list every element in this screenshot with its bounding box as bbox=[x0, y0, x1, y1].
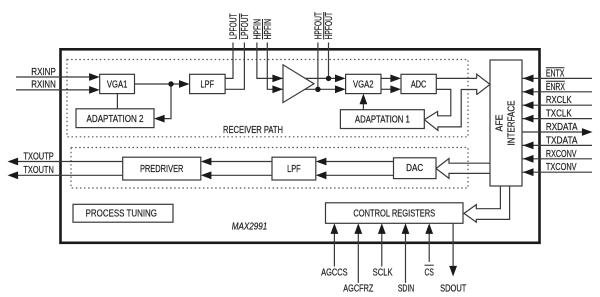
pin SCLK stub bbox=[381, 232, 383, 267]
wire LPF to PREDRIVER bbox=[211, 161, 272, 163]
arrow RXDATA out bbox=[582, 128, 593, 136]
svg-text:CONTROL REGISTERS: CONTROL REGISTERS bbox=[353, 209, 435, 220]
arrow TXCONV bbox=[523, 168, 534, 176]
svg-text:PREDRIVER: PREDRIVER bbox=[140, 164, 184, 175]
block ADAPTATION 1 bbox=[340, 110, 424, 129]
arrow VGA2 to ADC upper bbox=[390, 75, 401, 83]
block ADAPTATION 2 bbox=[76, 109, 154, 128]
svg-text:AGCCS: AGCCS bbox=[321, 267, 348, 278]
svg-text:RXINP: RXINP bbox=[31, 67, 56, 78]
block CONTROL REGISTERS bbox=[326, 203, 464, 224]
wire PREDRIVER to TXOUTP bbox=[18, 161, 123, 163]
svg-text:TXOUTN: TXOUTN bbox=[23, 165, 53, 176]
svg-text:ENTX: ENTX bbox=[546, 68, 565, 79]
svg-text:LPF: LPF bbox=[201, 80, 215, 91]
block LPF rx bbox=[190, 74, 226, 93]
svg-text:RECEIVER PATH: RECEIVER PATH bbox=[223, 125, 283, 136]
pin AGCFRZ stub bbox=[357, 232, 359, 283]
wire DAC to LPF bbox=[326, 161, 394, 163]
arrow CS bbox=[425, 223, 433, 234]
block PREDRIVER bbox=[123, 157, 201, 180]
arrow TXOUTP bbox=[8, 158, 19, 166]
arrow amp to VGA2 upper bbox=[335, 75, 346, 83]
pin LPFOUT stub bbox=[225, 43, 233, 79]
svg-text:RXDATA: RXDATA bbox=[546, 122, 578, 133]
wire RXINP bbox=[16, 76, 91, 78]
arrow HPFIN into amp bbox=[272, 75, 283, 83]
pin HPFOUT stub bbox=[317, 43, 319, 90]
arrow TXDATA bbox=[523, 142, 534, 150]
op-amp A1 triangle bbox=[283, 65, 314, 103]
arrow LPF to PREDRIVER lower bbox=[201, 171, 212, 179]
svg-text:PROCESS TUNING: PROCESS TUNING bbox=[86, 209, 157, 220]
svg-text:DAC: DAC bbox=[406, 163, 423, 174]
pin HPFOUTB stub bbox=[328, 43, 330, 79]
svg-text:VGA2: VGA2 bbox=[353, 80, 374, 91]
wire ADAPTATION 2 to VGA1 bbox=[116, 94, 118, 109]
svg-text:ADC: ADC bbox=[411, 80, 427, 91]
svg-text:MAX2991: MAX2991 bbox=[232, 222, 268, 233]
arrow RXCLK bbox=[523, 101, 534, 109]
pin TXCONV wire bbox=[522, 171, 592, 173]
svg-text:ADAPTATION 2: ADAPTATION 2 bbox=[87, 114, 144, 125]
svg-text:SCLK: SCLK bbox=[373, 267, 393, 278]
wire VGA2 to ADC bbox=[381, 77, 391, 79]
wire node to ADAPTATION 2 bbox=[163, 84, 171, 119]
svg-text:SDOUT: SDOUT bbox=[440, 283, 466, 294]
block VGA2 bbox=[346, 74, 381, 93]
svg-text:HPFOUT: HPFOUT bbox=[313, 12, 324, 40]
arrow AGCFRZ bbox=[354, 223, 362, 234]
svg-text:ENRX: ENRX bbox=[546, 82, 565, 93]
pin RXCONV wire bbox=[522, 158, 592, 160]
node HPFOUT junction bbox=[315, 87, 320, 92]
pin LPFOUTB stub bbox=[225, 43, 244, 90]
svg-text:LPFOUT: LPFOUT bbox=[228, 14, 239, 40]
block AFE INTERFACE bbox=[490, 60, 522, 186]
wire VGA1 to LPF bbox=[135, 83, 181, 85]
bus AFE to CONTROL REGISTERS bbox=[464, 186, 510, 222]
pin HPFINB stub bbox=[267, 43, 274, 90]
pin TXDATA wire bbox=[522, 144, 592, 146]
wire ADAPTATION 1 to VGA2 bbox=[362, 102, 364, 110]
svg-text:TXOUTP: TXOUTP bbox=[23, 151, 54, 162]
block LPF tx bbox=[272, 157, 316, 180]
svg-text:RXCONV: RXCONV bbox=[546, 149, 577, 160]
arrow TXOUTN bbox=[8, 171, 19, 179]
pin SDIN stub bbox=[405, 232, 407, 283]
arrow SDIN bbox=[402, 223, 410, 234]
arrow ENTX bbox=[523, 75, 534, 83]
pin ENTX wire bbox=[522, 77, 592, 79]
svg-text:RXINN: RXINN bbox=[31, 80, 56, 91]
svg-text:RXCLK: RXCLK bbox=[546, 95, 572, 106]
arrow SDOUT bbox=[449, 266, 457, 277]
arrow VGA1-LPF bbox=[179, 80, 190, 88]
bus ADC to ADAPTATION 1 bbox=[424, 89, 476, 130]
arrow amp to VGA2 lower bbox=[335, 85, 346, 93]
block PROCESS TUNING bbox=[73, 204, 173, 222]
pin CS stub bbox=[428, 232, 430, 262]
chip outline bbox=[61, 49, 540, 243]
arrow DAC to LPF lower bbox=[316, 171, 327, 179]
arrow RXINN bbox=[89, 86, 100, 94]
wire RXINN bbox=[16, 89, 91, 91]
block ADC bbox=[401, 74, 436, 93]
node HPFOUTB junction bbox=[326, 76, 331, 81]
block DAC bbox=[394, 158, 437, 179]
bus AFE to DAC bbox=[436, 159, 490, 179]
arrow ENRX bbox=[523, 88, 534, 96]
pin TXCLK wire bbox=[522, 118, 592, 120]
arrow RXCONV bbox=[523, 155, 534, 163]
svg-text:TXDATA: TXDATA bbox=[546, 135, 578, 146]
svg-text:AGCFRZ: AGCFRZ bbox=[343, 283, 373, 294]
pin ENRX wire bbox=[522, 91, 592, 93]
receiver path dashed box bbox=[67, 60, 468, 137]
svg-text:INTERFACE: INTERFACE bbox=[507, 100, 518, 145]
svg-text:TXCLK: TXCLK bbox=[546, 109, 572, 120]
pin AGCCS stub bbox=[333, 232, 335, 267]
svg-text:TXCONV: TXCONV bbox=[546, 162, 577, 173]
svg-text:CS: CS bbox=[425, 267, 435, 278]
svg-text:LPFOUT: LPFOUT bbox=[240, 14, 251, 40]
wire amp rails bbox=[274, 77, 336, 79]
arrow AGCCS bbox=[331, 223, 339, 234]
pin RXCLK wire bbox=[522, 104, 592, 106]
arrow RXINP bbox=[89, 73, 100, 81]
wire PREDRIVER to TXOUTN bbox=[18, 174, 123, 176]
node VGA1-LPF junction bbox=[168, 81, 173, 86]
svg-text:HPFOUT: HPFOUT bbox=[324, 12, 335, 40]
svg-text:HPFIN: HPFIN bbox=[252, 19, 263, 40]
svg-text:AFE: AFE bbox=[495, 114, 506, 131]
svg-text:SDIN: SDIN bbox=[398, 283, 414, 294]
arrow ADAPTATION1 to VGA2 bbox=[360, 94, 368, 105]
transmitter path dashed box bbox=[71, 148, 468, 189]
arrow HPFINB into amp bbox=[272, 85, 283, 93]
svg-text:VGA1: VGA1 bbox=[107, 80, 128, 91]
bus ADC to AFE bbox=[436, 77, 476, 79]
arrow into ADAPTATION 2 bbox=[154, 115, 165, 123]
arrow DAC to LPF upper bbox=[316, 158, 327, 166]
arrow TXCLK bbox=[523, 115, 534, 123]
svg-text:HPFIN: HPFIN bbox=[263, 19, 274, 40]
pin RXDATA wire bbox=[522, 131, 582, 133]
block VGA1 bbox=[100, 74, 135, 93]
pin SDOUT stub bbox=[452, 223, 454, 268]
arrow VGA2 to ADC lower bbox=[390, 85, 401, 93]
svg-text:ADAPTATION 1: ADAPTATION 1 bbox=[355, 115, 410, 126]
svg-text:LPF: LPF bbox=[287, 164, 301, 175]
arrow LPF to PREDRIVER upper bbox=[201, 158, 212, 166]
arrow SCLK bbox=[378, 223, 386, 234]
pin HPFIN stub bbox=[257, 43, 274, 79]
